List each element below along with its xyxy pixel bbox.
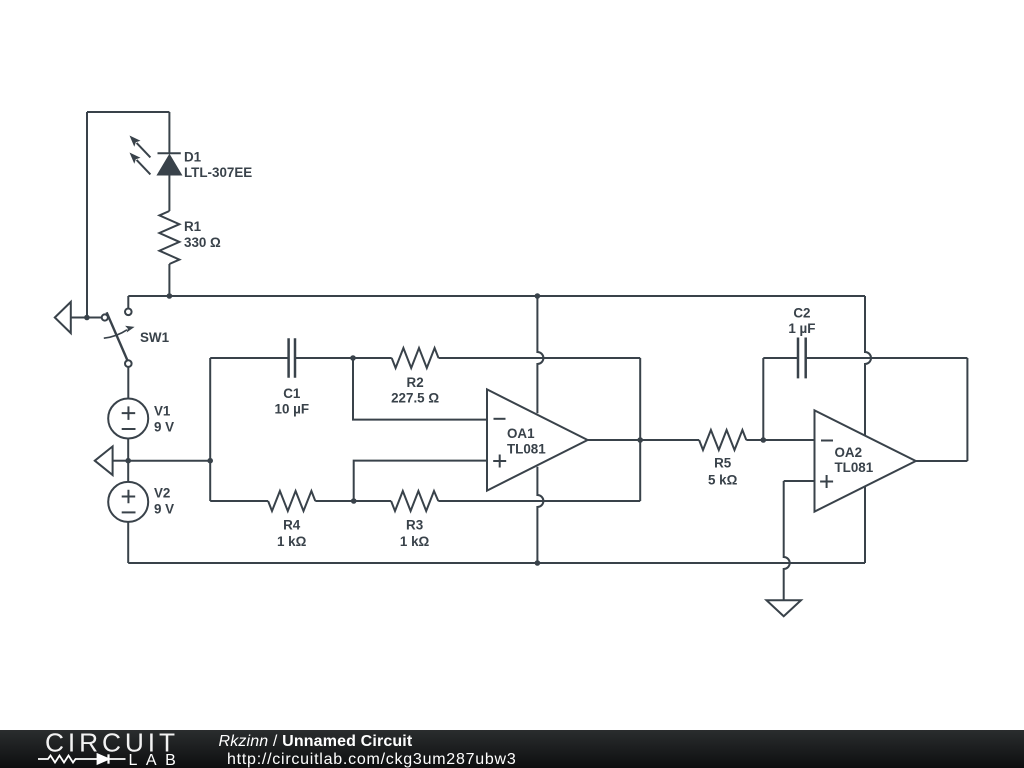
node junction R3/R4 (351, 498, 357, 504)
svg-text:R1: R1 (184, 219, 202, 234)
svg-text:V1: V1 (154, 404, 171, 419)
resistor R3 (354, 491, 641, 511)
LED D1 (158, 153, 181, 174)
svg-text:227.5 Ω: 227.5 Ω (391, 391, 439, 406)
node flag left A (55, 302, 87, 333)
wire OA1 inverting input (353, 358, 487, 420)
wire feedback right vertical (966, 358, 968, 461)
wire top-left horizontal (87, 111, 169, 113)
node junction R1/top rail (167, 293, 173, 299)
wire switch to V1 (127, 367, 129, 399)
capacitor C2 (763, 338, 967, 379)
wire OA1 V+ supply with hop (537, 296, 543, 413)
resistor R4 (210, 491, 354, 511)
wire OA2 + input to ground with hop (784, 481, 790, 600)
svg-text:TL081: TL081 (507, 441, 546, 456)
wire R1 to rail (168, 264, 170, 296)
wire OA1 non-inverting input (354, 461, 487, 501)
label R3 (400, 518, 430, 550)
wire C2 left vertical (762, 358, 764, 440)
svg-text:OA1: OA1 (507, 426, 535, 441)
wire LED to R1 (168, 174, 170, 211)
label OA2 (835, 445, 874, 475)
voltage source V1 (108, 399, 148, 439)
wire left branch vertical (209, 358, 211, 501)
svg-text:10 µF: 10 µF (275, 402, 310, 417)
node junction R5/C2 (761, 437, 767, 443)
label R1 (184, 219, 221, 250)
wire OA1 output (588, 439, 700, 441)
node junction left branch (207, 458, 213, 464)
svg-text:C2: C2 (793, 305, 810, 320)
wire OA2 V+ supply with hop (865, 296, 871, 436)
op-amp OA1 (487, 389, 588, 490)
wire V1 to V2 (127, 439, 129, 482)
resistor R1 (159, 211, 179, 264)
logo resistor-diode squiggle (38, 754, 126, 763)
node junction mid supply (125, 458, 131, 464)
label C1 (275, 386, 310, 417)
label OA1 (507, 426, 546, 457)
svg-text:LAB: LAB (129, 752, 185, 768)
svg-text:1 kΩ: 1 kΩ (277, 534, 307, 549)
resistor R2 (353, 348, 640, 368)
svg-text:R4: R4 (283, 518, 301, 533)
wire junction to switch (87, 317, 102, 319)
label SW1 (140, 330, 170, 345)
wire LED anode top (168, 112, 170, 153)
svg-text:V2: V2 (154, 486, 170, 501)
wire switch top contact (127, 296, 129, 309)
svg-text:9 V: 9 V (154, 420, 174, 435)
footer bar (0, 730, 1024, 768)
label R5 (708, 456, 738, 488)
svg-text:R3: R3 (406, 518, 423, 533)
resistor R5 (699, 430, 814, 450)
svg-text:R2: R2 (407, 375, 424, 390)
svg-text:1 kΩ: 1 kΩ (400, 534, 430, 549)
LED emission arrow 1 (130, 136, 151, 158)
switch SW1 (102, 309, 135, 367)
node junction bottom rail OA1 supply (535, 560, 541, 566)
wire V2 to bottom rail (127, 522, 129, 563)
top rail wire (128, 295, 865, 297)
capacitor C1 (210, 338, 353, 378)
node flag left B (95, 446, 128, 475)
svg-text:1 µF: 1 µF (788, 321, 815, 336)
label V2 (154, 486, 174, 517)
svg-text:5 kΩ: 5 kΩ (708, 473, 738, 488)
svg-text:R5: R5 (714, 456, 732, 471)
op-amp OA2 (815, 410, 916, 511)
label R2 (391, 375, 439, 406)
label V1 (154, 404, 174, 435)
wire OA2 non-inverting input (784, 480, 815, 482)
svg-text:C1: C1 (283, 386, 301, 401)
svg-text:Rkzinn / Unnamed Circuit: Rkzinn / Unnamed Circuit (219, 733, 413, 750)
node junction switch pole (84, 315, 90, 321)
wire OA2 output to feedback (916, 460, 968, 462)
label D1 (184, 150, 252, 181)
svg-text:9 V: 9 V (154, 502, 174, 517)
label C2 (788, 305, 815, 336)
bottom rail wire (128, 562, 865, 564)
node junction top rail OA1 supply (535, 293, 541, 299)
svg-text:TL081: TL081 (835, 460, 874, 475)
voltage source V2 (108, 482, 148, 522)
svg-text:D1: D1 (184, 150, 202, 165)
svg-text:http://circuitlab.com/ckg3um28: http://circuitlab.com/ckg3um287ubw3 (227, 751, 517, 768)
wire OA1 V- supply with hop (537, 467, 543, 563)
svg-text:OA2: OA2 (835, 445, 863, 460)
svg-text:330 Ω: 330 Ω (184, 235, 221, 250)
wire mid supply to left branch (128, 460, 210, 462)
wire OA2 V- supply (864, 486, 866, 563)
node junction output/feedback (637, 437, 643, 443)
svg-text:SW1: SW1 (140, 330, 170, 345)
svg-text:LTL-307EE: LTL-307EE (184, 165, 252, 180)
label R4 (277, 518, 307, 550)
wire feedback vertical (639, 358, 641, 501)
LED emission arrow 2 (130, 153, 151, 175)
ground (767, 600, 802, 616)
wire top-left vertical (86, 112, 88, 318)
node junction C1/R2 (350, 355, 356, 361)
